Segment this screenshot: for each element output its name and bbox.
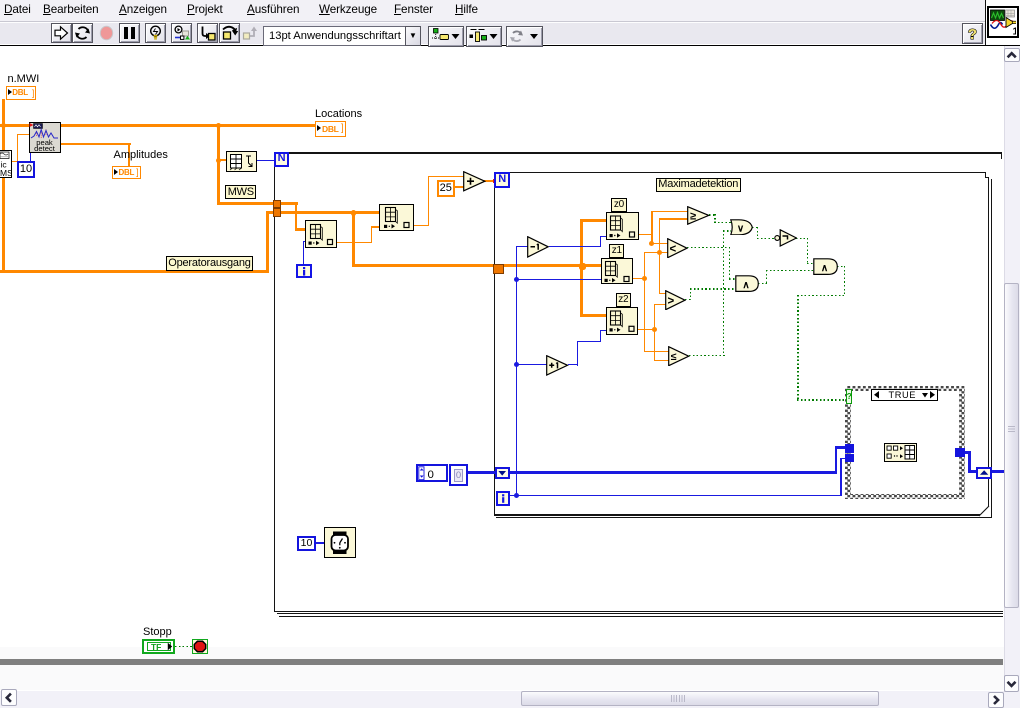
svg-text:∧: ∧: [821, 263, 828, 274]
svg-text:∨: ∨: [737, 223, 744, 234]
svg-text:0: 0: [428, 469, 434, 481]
svg-text:≥: ≥: [690, 211, 696, 223]
svg-text:1: 1: [1012, 26, 1016, 35]
svg-text:MS: MS: [0, 168, 12, 178]
svg-text:TF: TF: [151, 642, 161, 652]
svg-text:detect: detect: [34, 144, 56, 153]
svg-text:<: <: [670, 243, 677, 255]
svg-text:≤: ≤: [671, 351, 677, 363]
svg-text:TRUE: TRUE: [888, 390, 915, 400]
svg-text:>: >: [668, 295, 675, 307]
svg-text:∧: ∧: [742, 280, 749, 291]
svg-text:?: ?: [968, 26, 977, 43]
